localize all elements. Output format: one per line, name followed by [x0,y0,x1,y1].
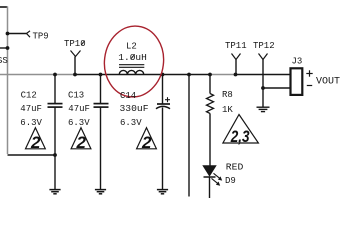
capacitor C14 top wire [162,75,164,105]
svg-text:C14: C14 [120,91,136,101]
inductor L2 slashed zero [131,54,135,59]
flag triangle 2 (C13) [71,128,91,149]
svg-text:J3: J3 [292,56,303,66]
node TP12/J3 ground junction dot [261,86,265,90]
J3 plus mark [306,70,312,76]
wire R8 to LED [209,113,211,165]
ground below C14 [157,190,168,194]
test point TP10 symbol [71,51,81,57]
wire VOUT rail black middle [75,74,210,76]
svg-text:6.3V: 6.3V [20,118,42,128]
svg-text:47uF: 47uF [20,104,42,114]
svg-text:C12: C12 [21,91,37,101]
highlight ellipse around L2 [100,23,167,101]
capacitor C14 bottom wire [162,108,164,190]
svg-text:L2: L2 [126,42,137,52]
svg-text:2: 2 [76,133,87,152]
capacitor C12 plates [48,103,63,105]
ground below C13 [95,190,106,194]
svg-text:VOUT: VOUT [316,77,340,88]
svg-text:2,3: 2,3 [230,127,250,146]
svg-text:330uF: 330uF [120,104,149,114]
svg-text:SS: SS [0,56,8,66]
svg-text:1K: 1K [222,105,233,115]
flag triangle 2 (C14) [137,128,157,149]
node PGND/C12 junction dot [53,153,57,157]
capacitor C14 curved plate [156,106,170,108]
svg-text:TP9: TP9 [33,32,49,42]
resistor R8 top wire [209,75,211,94]
wire VOUT rail gray segment left [0,74,75,76]
wire J3 pin2 ground [263,87,290,89]
ground below TP12 [257,107,270,111]
node TP9 junction dot [6,32,10,36]
IC box outline (gray right edge of IC U2) [7,7,9,155]
node SS junction dot [6,46,10,50]
IC box top wire [0,6,8,8]
flag triangle 2,3 [223,115,259,144]
svg-text:6.3V: 6.3V [120,118,142,128]
svg-text:2: 2 [141,133,152,152]
wire sense line down [188,75,190,197]
node R8 rail dot [208,73,212,77]
wire LED to bottom [209,177,211,198]
svg-text:C13: C13 [68,91,84,101]
J3 minus mark [307,85,312,87]
wire TP12 stem to ground [262,60,264,108]
svg-text:R8: R8 [222,90,233,100]
capacitor C12 bottom wire [54,107,56,189]
svg-text:TP11: TP11 [225,41,247,51]
capacitor C13 top wire [100,75,102,104]
wire TP10 stem [74,57,76,75]
svg-text:TP12: TP12 [253,41,275,51]
wire VOUT rail to J3 [236,74,291,76]
svg-text:47uF: 47uF [68,104,90,114]
capacitor C14 plus sign [165,97,170,102]
test point TP9 chevron [27,31,31,37]
ground below C12 [49,190,60,194]
LED D9 cathode bar [204,176,216,178]
test point TP10 slashed zero [81,41,84,46]
LED D9 emission arrow 2 [212,178,218,183]
node TP11 rail dot [234,73,238,77]
node C14 rail dot [161,73,165,77]
flag triangle 2 (C12) [26,128,46,149]
LED D9 emission arrow 1 [214,173,220,178]
test point TP12 symbol [259,54,268,60]
wire TP9 [8,33,27,35]
svg-text:2: 2 [30,133,41,152]
capacitor C13 plates [94,103,109,105]
node sense wire rail dot [187,73,191,77]
test point TP11 symbol [232,54,241,60]
wire PGND to C12 ground [8,154,56,156]
connector J3 body [291,68,303,95]
capacitor C13 bottom wire [100,107,102,189]
capacitor C12 top wire [54,75,56,104]
node C13 rail dot [99,73,103,77]
resistor R8 zigzag [207,94,214,114]
inductor L2 winding [119,70,144,74]
wire SS [0,47,8,49]
svg-text:6.3V: 6.3V [68,118,90,128]
inductor L2 core bars [119,64,144,66]
node TP10 rail dot [73,73,77,77]
wire VOUT rail gray segment right [210,74,236,76]
svg-text:RED: RED [226,163,244,173]
capacitor C14 top plate [157,103,170,105]
LED D9 triangle [203,166,216,176]
wire TP11 stem [235,60,237,75]
svg-text:D9: D9 [225,176,236,186]
node C12 rail dot [53,73,57,77]
